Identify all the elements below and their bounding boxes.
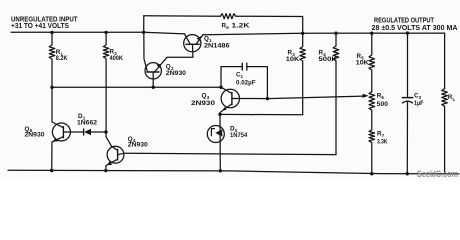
- node: R4 output rail junction: [334, 32, 337, 35]
- resistor R5 10K (divider): [369, 33, 375, 91]
- transistor Q4 2N930: [107, 146, 124, 163]
- svg-text:2N930: 2N930: [25, 132, 46, 139]
- wire: unregulated input top rail: [11, 32, 185, 34]
- svg-text:1µF: 1µF: [414, 100, 424, 107]
- capacitor C2 1uF: [407, 33, 409, 97]
- node: Q2 base tee: [152, 86, 155, 89]
- transistor Q2 2N930: [145, 63, 161, 79]
- node: Q4 emitter ground: [104, 169, 107, 172]
- diode D1 1N662: [70, 131, 83, 133]
- resistor R5 1.2K (horizontal): [220, 14, 236, 19]
- node: C2 output rail junction: [406, 31, 409, 34]
- wire: node from R1 bottom to Q2 base and Q3 collector: [52, 86, 221, 88]
- svg-text:400K: 400K: [110, 55, 124, 62]
- svg-text:L: L: [453, 97, 456, 102]
- svg-text:7: 7: [382, 133, 385, 138]
- svg-text:2N930: 2N930: [191, 100, 216, 107]
- node: divider output rail junction: [370, 32, 373, 35]
- node: Q5 emitter ground: [50, 169, 53, 172]
- node: R5/R3 output rail junction: [301, 32, 304, 35]
- node: Q3 collector / C1 left: [219, 86, 222, 89]
- svg-text:2N930: 2N930: [128, 141, 149, 148]
- svg-text:10K: 10K: [286, 56, 300, 63]
- arrow: Q5 emitter: [53, 138, 58, 142]
- svg-text:2N930: 2N930: [166, 70, 187, 77]
- arrow: Q1 emitter: [197, 36, 201, 41]
- resistor R1 8.2K: [49, 32, 55, 87]
- svg-text:1: 1: [241, 74, 244, 79]
- resistor R6 500 potentiometer: [369, 92, 375, 111]
- svg-text:10K: 10K: [356, 59, 369, 66]
- node: Q3 emitter / R3 bottom / D2 top: [218, 113, 221, 116]
- wire: R5 bypass horizontal right segment + right riser down to output rail: [236, 16, 303, 33]
- node: D2 ground: [219, 169, 222, 172]
- resistor R3 10K: [300, 33, 306, 115]
- svg-text:28 ±0.5 VOLTS AT 300 MA: 28 ±0.5 VOLTS AT 300 MA: [372, 24, 458, 32]
- svg-text:500: 500: [377, 101, 389, 108]
- transistor Q3 2N930: [221, 89, 239, 107]
- svg-text:0.02µF: 0.02µF: [236, 79, 256, 86]
- node: C1 right / Q3 base: [266, 97, 269, 100]
- node: R2 bottom / D1 anode / Q4 collector: [104, 130, 107, 133]
- resistor R2 400K: [103, 32, 109, 132]
- arrow: Q3 emitter: [222, 107, 226, 111]
- node: R7 ground: [370, 172, 373, 175]
- svg-text:5: 5: [226, 25, 229, 30]
- svg-text:1N662: 1N662: [77, 119, 98, 126]
- resistor R7 3.3K: [369, 110, 375, 174]
- wire: R3 bottom to Q3 emitter / D2 node: [220, 113, 303, 115]
- svg-text:SeekIC.com: SeekIC.com: [417, 169, 458, 179]
- svg-text:500K: 500K: [319, 56, 338, 63]
- svg-text:2N1486: 2N1486: [204, 43, 230, 50]
- svg-text:3.3K: 3.3K: [377, 139, 388, 146]
- transistor Q1 2N1486: [184, 35, 201, 52]
- arrow: R6 potentiometer wiper: [363, 94, 369, 98]
- capacitor C1 0.02uF feedback box: [221, 67, 242, 88]
- wire: R5 bypass top path left riser: [143, 16, 145, 33]
- svg-text:1.2K: 1.2K: [232, 22, 251, 29]
- node: R5/Q2 collector rail junction: [142, 31, 145, 34]
- node: R1 top rail junction: [50, 31, 53, 34]
- wire: Q3 base to R6 wiper: [239, 96, 363, 99]
- svg-text:+31 TO +41 VOLTS: +31 TO +41 VOLTS: [11, 22, 69, 30]
- wire: R2/D1 node down to Q4 collector: [106, 132, 112, 146]
- svg-text:6: 6: [381, 95, 384, 100]
- resistor RL load: [442, 33, 448, 174]
- wire: R5 bypass horizontal left segment: [144, 15, 221, 17]
- transistor Q5 2N930: [52, 123, 70, 141]
- svg-text:8.2K: 8.2K: [56, 55, 68, 62]
- wire: bottom common rail: [8, 170, 459, 174]
- resistor R4 500K: [333, 33, 339, 154]
- node: R2 top rail junction: [104, 31, 107, 34]
- node: R1 bottom / Q5 collector: [50, 86, 53, 89]
- wire: R4 bottom to Q4 base: [124, 153, 336, 154]
- svg-text:1N754: 1N754: [230, 132, 248, 139]
- arrow: Q4 emitter: [107, 161, 112, 165]
- arrow: Q2 emitter: [157, 64, 162, 68]
- wire: output rail from Q1 emitter to right corner: [203, 33, 445, 35]
- zener diode D2 1N754: [207, 126, 224, 143]
- node: C2 ground: [406, 172, 409, 175]
